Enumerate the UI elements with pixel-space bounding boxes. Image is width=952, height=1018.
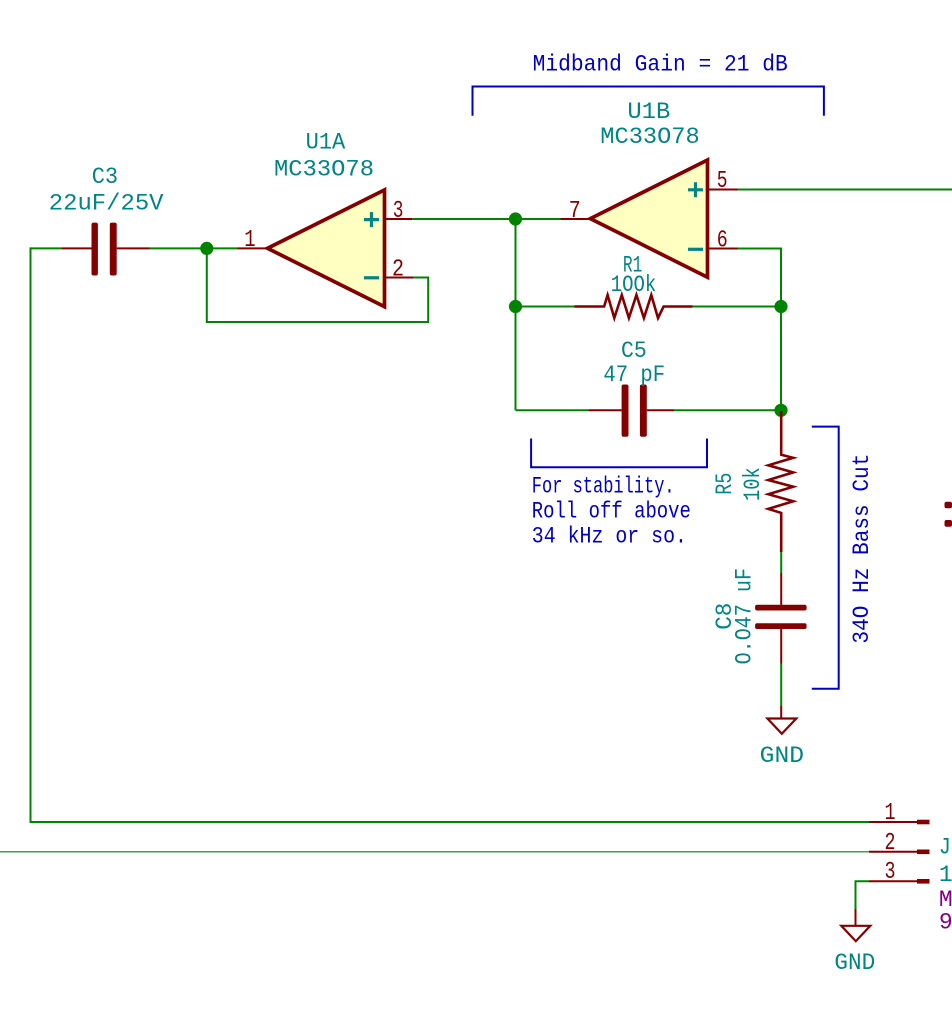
wire: R1 right to node C <box>693 306 782 308</box>
C8 bottom lead <box>780 629 782 664</box>
svg-text:U1B: U1B <box>627 99 670 125</box>
op-amp U1B <box>561 99 738 277</box>
ground: GND below C8 <box>760 706 804 769</box>
resistor R1 <box>575 253 693 318</box>
U1B pin 5 stub <box>708 189 738 191</box>
svg-text:7: 7 <box>569 198 581 225</box>
capacitor (partial, clipped at right edge) <box>945 502 952 527</box>
capacitor C8 <box>712 568 807 664</box>
U1B plus mark <box>688 182 703 197</box>
bracket: for stability note span <box>531 439 707 468</box>
bracket: 340 Hz Bass Cut span <box>812 427 839 689</box>
svg-text:22uF/25V: 22uF/25V <box>49 191 164 217</box>
C3 right lead <box>117 247 150 249</box>
svg-text:1: 1 <box>244 227 255 254</box>
svg-text:2: 2 <box>885 830 896 857</box>
U1A pin 3 stub <box>385 218 413 220</box>
C3 left plate <box>92 223 98 276</box>
pin 2 end pad <box>917 850 930 855</box>
svg-text:1OOk: 1OOk <box>611 272 657 298</box>
svg-text:3: 3 <box>885 859 896 886</box>
svg-text:J5: J5 <box>939 834 952 860</box>
GND triangle symbol <box>767 719 796 734</box>
junction: node C at R1 right <box>774 300 787 313</box>
svg-text:GND: GND <box>834 950 875 976</box>
partial top plate <box>945 502 952 508</box>
wire: U1A feedback loop pin2 to node A <box>207 248 428 322</box>
C8 top lead <box>780 573 782 605</box>
U1A minus mark <box>364 276 379 279</box>
capacitor C5 <box>588 338 674 437</box>
wire: input to C3 left lead <box>31 247 62 249</box>
pin 1 lead <box>869 821 917 823</box>
svg-text:6: 6 <box>717 227 728 254</box>
bracket: midband gain span <box>473 87 824 116</box>
svg-text:R5: R5 <box>712 473 738 495</box>
svg-text:Roll off above: Roll off above <box>532 498 691 524</box>
op-amp U1A <box>238 130 414 307</box>
resistor R5 <box>712 411 793 552</box>
junction: node D at C5 right / R5 top <box>774 404 787 417</box>
GND pin <box>780 706 782 719</box>
svg-text:Midband Gain = 21 dB: Midband Gain = 21 dB <box>533 52 788 78</box>
U1A pin 1 stub <box>238 247 268 249</box>
wire: J5 pin2 row (thin) <box>0 851 869 853</box>
wire: U1A pin3 to U1B pin7 <box>412 218 560 220</box>
svg-text:MC33O78: MC33O78 <box>274 157 374 183</box>
U1A pin 2 stub <box>385 277 414 279</box>
junction: node A (C3 / U1A pin1 / feedback) <box>200 242 213 255</box>
C3 right plate <box>110 223 117 276</box>
svg-text:2: 2 <box>392 257 404 284</box>
pin 3 lead <box>869 880 917 882</box>
C8 top plate <box>755 605 807 611</box>
connector J5 pin 3 <box>869 859 930 886</box>
wire: C5 right to node D <box>674 409 781 411</box>
R5 body zigzag with leads <box>768 411 793 552</box>
svg-text:For stability.: For stability. <box>532 473 675 499</box>
C8 bottom plate <box>755 623 807 629</box>
junction: node B at R1 left <box>509 300 522 313</box>
GND pin <box>855 909 857 926</box>
pin 2 lead <box>869 851 917 853</box>
svg-text:47 pF: 47 pF <box>603 362 665 388</box>
U1B minus mark <box>688 248 703 251</box>
svg-text:1: 1 <box>885 800 896 827</box>
wire: R5 bottom to C8 top <box>780 552 782 573</box>
wire: C3 right lead to node A to U1A pin1 <box>150 247 238 249</box>
U1A triangle body <box>268 190 385 307</box>
wire: node B to R1 left <box>516 306 575 308</box>
svg-text:34O Hz Bass Cut: 34O Hz Bass Cut <box>849 454 875 644</box>
U1B pin 7 stub <box>561 218 591 220</box>
svg-text:10k: 10k <box>740 467 766 501</box>
svg-text:U1A: U1A <box>306 130 346 156</box>
C3 left lead <box>61 247 91 249</box>
svg-text:5: 5 <box>717 168 728 195</box>
junction: node B (pin3 / pin7) <box>509 212 522 225</box>
wire: U1B pin5 output to right edge <box>738 189 952 191</box>
svg-text:GND: GND <box>760 743 804 769</box>
svg-text:MC33O78: MC33O78 <box>600 124 699 150</box>
C5 left lead <box>588 409 621 411</box>
GND triangle symbol <box>841 926 870 941</box>
pin 3 end pad <box>917 879 930 884</box>
C5 right plate <box>640 385 647 437</box>
R1 body zigzag with leads <box>575 295 693 318</box>
U1A plus mark <box>364 212 379 227</box>
svg-text:1/8" Jack: 1/8" Jack <box>939 862 952 888</box>
svg-text:C5: C5 <box>621 338 647 364</box>
partial bottom plate <box>945 520 952 527</box>
connector J5 pin 1 <box>869 800 930 827</box>
wire: U1B pin6 down right vertical <box>738 249 782 411</box>
U1B pin 6 stub <box>708 248 738 250</box>
svg-text:3: 3 <box>393 198 404 225</box>
svg-text:9774: 9774 <box>939 909 952 935</box>
C5 right lead <box>647 409 674 411</box>
svg-text:C3: C3 <box>92 164 118 190</box>
C5 left plate <box>622 385 629 437</box>
wire: mid-left vertical (node B column) <box>515 219 517 410</box>
U1B triangle body <box>590 160 707 277</box>
wire: left vertical bus down and across to J5 pin1 <box>31 247 870 822</box>
svg-text:O.O47 uF: O.O47 uF <box>731 568 757 664</box>
wire: C8 bottom to GND <box>780 664 782 707</box>
pin 1 end pad <box>917 820 930 825</box>
wire: J5 pin3 to GND <box>856 881 870 909</box>
ground: GND at J5 pin3 <box>834 909 875 976</box>
capacitor C3 <box>49 164 164 276</box>
connector J5 pin 2 <box>869 830 930 857</box>
wire: node B to C5 left <box>516 409 589 411</box>
svg-text:34 kHz or so.: 34 kHz or so. <box>532 523 687 549</box>
